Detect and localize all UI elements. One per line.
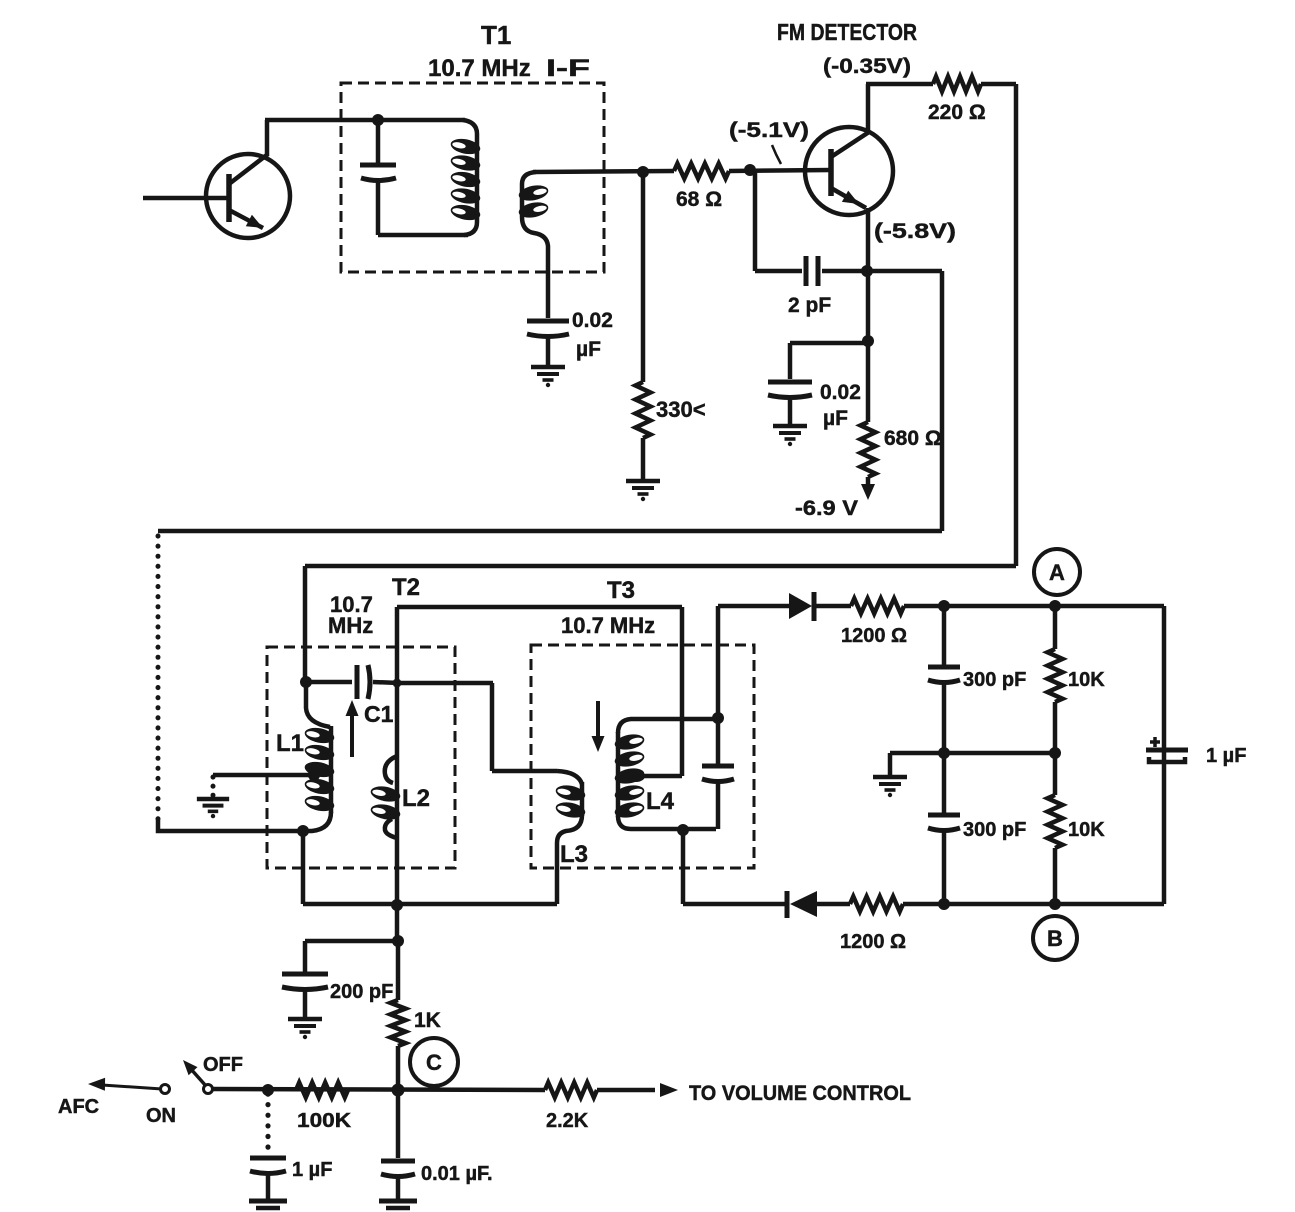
svg-text:A: A [1049,560,1065,585]
svg-text:1200 Ω: 1200 Ω [841,625,907,647]
svg-text:MHz: MHz [328,613,373,638]
svg-text:10.7 MHz: 10.7 MHz [561,613,655,638]
svg-text:(-5.1V): (-5.1V) [729,119,809,142]
svg-text:(-0.35V): (-0.35V) [823,55,911,78]
svg-text:T1: T1 [481,20,511,50]
svg-text:0.01 µF.: 0.01 µF. [421,1163,493,1185]
svg-text:µF: µF [576,338,601,361]
svg-text:I-F: I-F [546,55,590,82]
svg-text:L1: L1 [276,730,304,757]
svg-text:ON: ON [146,1105,176,1127]
svg-text:10K: 10K [1068,669,1105,691]
svg-text:FM DETECTOR: FM DETECTOR [777,19,917,45]
svg-text:T2: T2 [392,574,420,601]
svg-text:T3: T3 [607,577,635,604]
svg-text:1 µF: 1 µF [292,1159,332,1181]
svg-text:1K: 1K [414,1009,441,1032]
svg-text:AFC: AFC [58,1096,99,1118]
svg-text:10.7 MHz: 10.7 MHz [428,55,531,82]
svg-text:1 µF: 1 µF [1206,745,1246,767]
svg-text:680 Ω: 680 Ω [884,427,942,450]
svg-text:330<: 330< [656,397,706,422]
svg-text:TO VOLUME CONTROL: TO VOLUME CONTROL [689,1082,911,1105]
svg-text:0.02: 0.02 [572,309,613,332]
svg-text:300 pF: 300 pF [963,819,1026,841]
svg-text:200 pF: 200 pF [330,981,393,1003]
svg-text:300 pF: 300 pF [963,669,1026,691]
svg-text:L4: L4 [646,788,675,815]
svg-text:100K: 100K [297,1110,352,1132]
svg-text:L3: L3 [560,841,588,868]
svg-text:C: C [426,1050,442,1075]
svg-text:2 pF: 2 pF [788,294,831,317]
svg-text:220 Ω: 220 Ω [928,101,986,124]
svg-text:0.02: 0.02 [820,381,861,404]
svg-text:10K: 10K [1068,819,1105,841]
svg-text:-6.9 V: -6.9 V [795,497,858,520]
svg-text:B: B [1047,926,1063,951]
svg-text:(-5.8V): (-5.8V) [874,220,956,243]
svg-text:µF: µF [823,407,848,430]
svg-text:2.2K: 2.2K [546,1110,589,1132]
svg-text:68 Ω: 68 Ω [676,188,722,211]
svg-text:1200 Ω: 1200 Ω [840,931,906,953]
svg-text:OFF: OFF [203,1054,243,1076]
svg-text:C1: C1 [364,701,394,727]
svg-text:L2: L2 [402,785,430,812]
